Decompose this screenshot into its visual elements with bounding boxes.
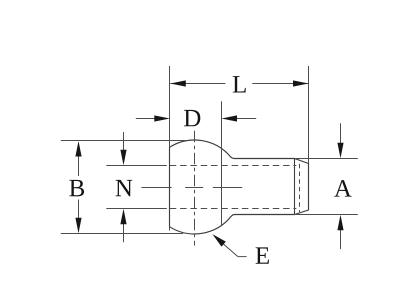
N arrow top [123,132,125,151]
dimension line B [78,143,80,176]
svg-text:B: B [69,175,86,202]
hidden bore line bottom [170,208,296,210]
extension line A bottom [296,214,358,216]
dimension line D [136,118,156,120]
A arrow top [340,123,342,144]
chamfer edge at shank end [294,159,296,215]
svg-text:N: N [115,175,133,202]
svg-text:L: L [232,72,247,99]
dimension line L [170,83,225,85]
extension line N bottom [106,208,167,210]
extension line A top [295,158,358,160]
leader E [222,242,238,256]
extension line D right [221,101,223,226]
ball shank part outline [170,140,309,234]
A arrow bottom [340,229,342,249]
extension line B top [61,140,188,142]
extension line L right [308,66,310,163]
vertical centerline [194,131,196,246]
extension line N top [106,165,167,167]
hidden bore line top [170,165,296,167]
svg-text:D: D [183,105,201,132]
svg-text:A: A [334,176,352,203]
horizontal centerline [141,187,242,189]
extension line L/D left [169,66,171,148]
svg-text:E: E [255,243,270,270]
N arrow bottom [123,223,125,243]
extension line B bottom [61,233,183,235]
hidden bore end line [299,164,301,212]
